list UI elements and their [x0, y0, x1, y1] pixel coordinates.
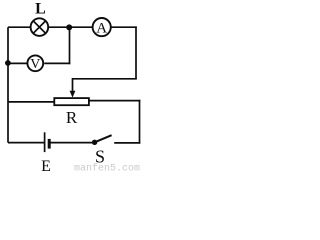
- wire: left vertical bus: [7, 27, 9, 142]
- svg-text:R: R: [66, 108, 78, 127]
- wire: voltmeter to riser corner: [44, 62, 70, 64]
- voltmeter V: [27, 55, 43, 72]
- wire: right vertical (rheostat to switch side): [139, 100, 141, 144]
- wire: left bus to rheostat left end: [8, 101, 55, 103]
- battery E (long and short plates): [45, 132, 50, 152]
- wire: wiper feed horizontal: [73, 78, 137, 80]
- wire: lamp to ammeter: [49, 26, 93, 28]
- wire: voltmeter riser up to top node: [69, 27, 71, 64]
- wire: battery to switch pivot: [50, 142, 95, 144]
- ammeter A: [93, 18, 111, 36]
- switch S (pivot dot and open blade): [92, 135, 112, 145]
- node: voltmeter tap dot on left bus: [5, 60, 11, 66]
- wire: rheostat right end to right-bottom corner: [89, 100, 140, 102]
- wire: bottom-right segment (corner to switch contact): [114, 142, 140, 144]
- wire: right vertical (top corner down to wiper feed): [135, 26, 137, 79]
- svg-text:E: E: [41, 158, 51, 173]
- wire: left bus to voltmeter: [8, 62, 27, 64]
- rheostat R (slider box): [54, 98, 89, 105]
- node: junction dot (lamp/ammeter wire to voltmeter riser): [66, 24, 72, 30]
- svg-text:manfen5.com: manfen5.com: [74, 163, 140, 173]
- svg-text:A: A: [96, 20, 107, 36]
- svg-text:L: L: [35, 1, 46, 18]
- svg-text:V: V: [30, 57, 40, 72]
- wire: wiper drop with arrow into rheostat: [70, 78, 76, 98]
- lamp L: [31, 18, 49, 36]
- wire: top-left segment (bus corner to lamp): [8, 26, 30, 28]
- wire: ammeter to top-right corner: [111, 26, 136, 28]
- wire: left bus to battery: [8, 142, 45, 144]
